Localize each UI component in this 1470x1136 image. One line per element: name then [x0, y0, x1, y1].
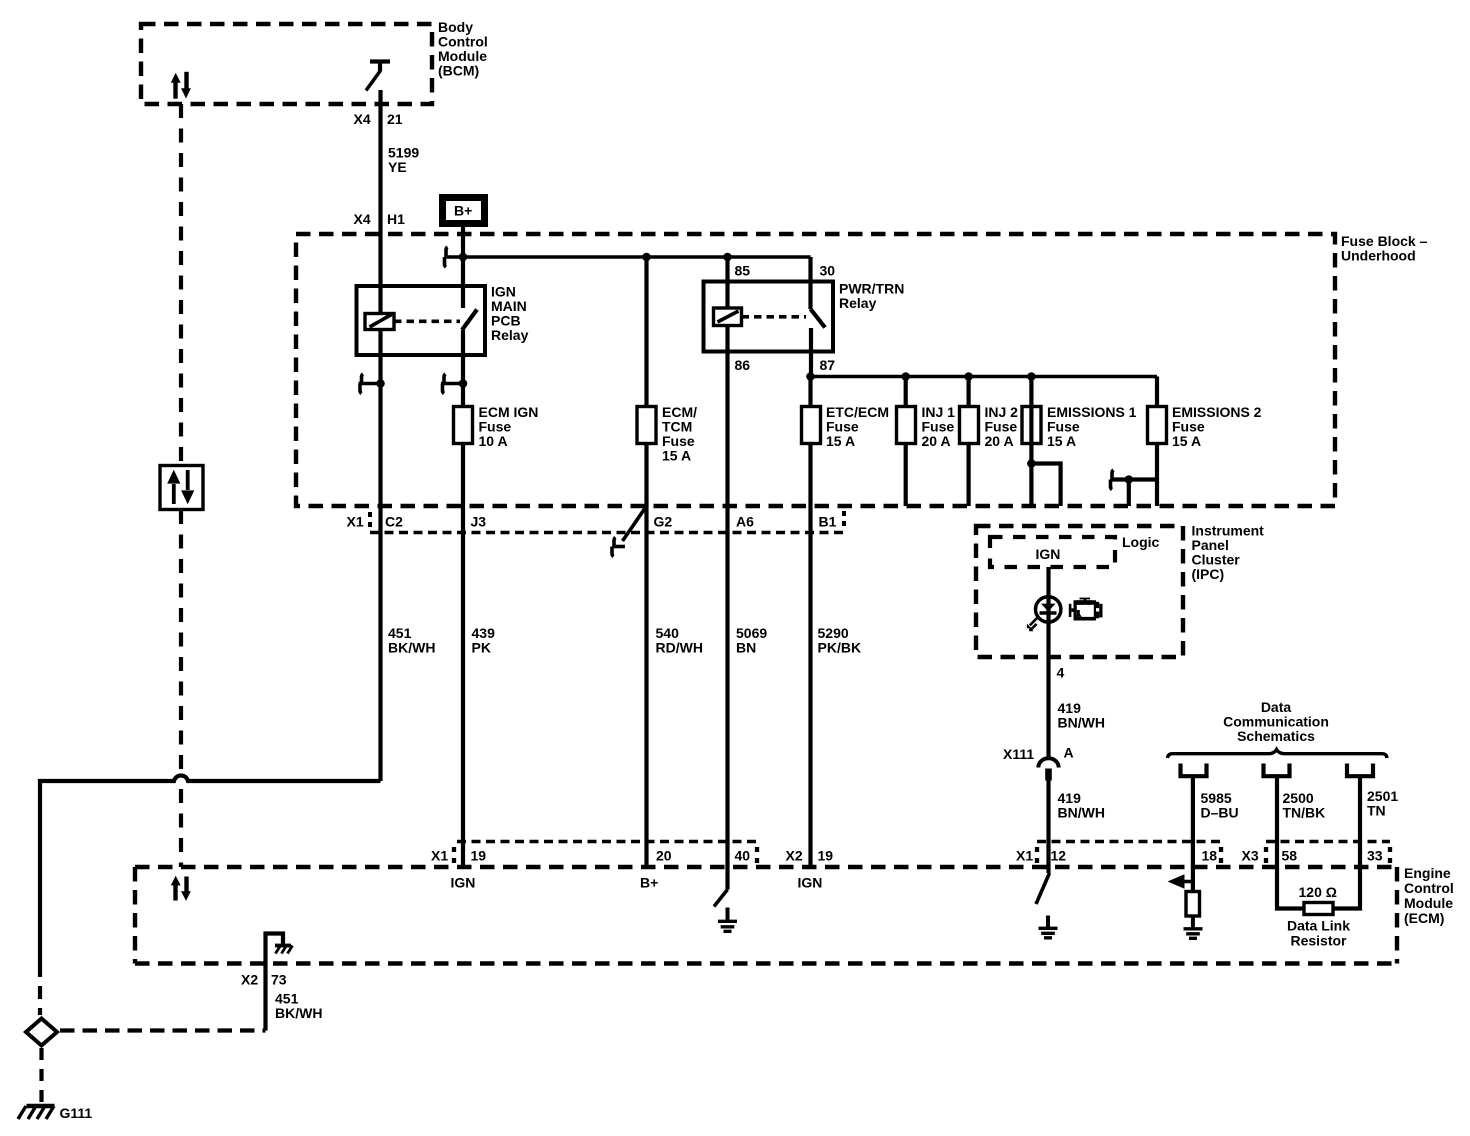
indicator LED lamp: [1027, 597, 1061, 632]
module box BCM: [141, 24, 432, 104]
svg-text:H1: H1: [387, 211, 405, 227]
wire coil out to C2: [378, 330, 382, 507]
wire IGN to lamp: [1046, 567, 1050, 657]
wire dashed to splice: [38, 964, 42, 1015]
svg-text:X1: X1: [431, 848, 448, 864]
svg-text:Schematics: Schematics: [1237, 728, 1315, 744]
terminal clip C2: [359, 374, 385, 394]
node junction INJ1 tap: [901, 372, 910, 381]
wire 451 BK/WH horizontal with hop: [40, 775, 381, 964]
svg-text:(ECM): (ECM): [1404, 910, 1444, 926]
svg-text:BK/WH: BK/WH: [275, 1005, 322, 1021]
svg-text:Module: Module: [1404, 895, 1453, 911]
svg-text:D–BU: D–BU: [1201, 805, 1239, 821]
svg-text:A6: A6: [736, 514, 754, 530]
svg-text:Relay: Relay: [839, 295, 877, 311]
node X4 H1: [354, 211, 406, 227]
svg-text:A: A: [1064, 745, 1074, 761]
wire 451 BK/WH run: [378, 506, 382, 781]
switch clip at G2: [612, 506, 647, 557]
brace: [1168, 750, 1388, 759]
wire 87 to B1: [808, 377, 812, 507]
terminal clip at B+ node: [445, 247, 464, 267]
fuse ECM/TCM 15A: [637, 404, 697, 464]
wire 419 BN/WH lower: [1046, 780, 1050, 873]
svg-text:(IPC): (IPC): [1192, 566, 1225, 582]
ground at pin 18: [1184, 916, 1203, 938]
label IGN MAIN PCB Relay: [491, 284, 529, 344]
wire bus to PWR/TRN relay: [463, 255, 811, 259]
node junction INJ2 tap: [964, 372, 973, 381]
label BCM: [438, 19, 488, 79]
label 5985 D-BU: [1201, 790, 1239, 821]
svg-text:PK: PK: [472, 640, 491, 656]
node X4 21: [354, 111, 403, 127]
svg-text:X2: X2: [241, 972, 258, 988]
svg-text:PK/BK: PK/BK: [818, 640, 862, 656]
connector line ECM X1 right: [1037, 842, 1221, 864]
svg-text:TN/BK: TN/BK: [1283, 805, 1326, 821]
wire pin 33: [1333, 842, 1360, 909]
svg-text:Control: Control: [1404, 880, 1454, 896]
svg-text:Underhood: Underhood: [1341, 248, 1416, 264]
svg-text:10 A: 10 A: [479, 433, 508, 449]
connector line fuse block X1: [370, 511, 845, 533]
label 2500 TN/BK: [1283, 790, 1326, 821]
svg-text:RD/WH: RD/WH: [656, 640, 703, 656]
connector stub 5985: [1181, 764, 1207, 842]
svg-text:20 A: 20 A: [922, 433, 951, 449]
pin labels fuse block connector: [347, 514, 837, 530]
logic box IGN: [990, 537, 1115, 567]
connector stub 2501: [1347, 764, 1373, 842]
connector line ECM X1 left: [454, 842, 757, 864]
switch inside BCM: [366, 62, 390, 91]
wire ECM IGN fuse to pin 19: [461, 444, 465, 868]
fuse INJ 2 20A: [960, 404, 1019, 449]
label 2501 TN: [1367, 788, 1398, 819]
node junction 85 tap: [723, 253, 732, 262]
node X2 73: [241, 972, 287, 988]
label 540 RD/WH: [656, 625, 703, 656]
pin 86 wire to A6: [725, 326, 729, 507]
svg-text:Relay: Relay: [491, 327, 529, 343]
label 451 BK/WH: [388, 625, 435, 656]
svg-text:YE: YE: [388, 159, 407, 175]
svg-text:BK/WH: BK/WH: [388, 640, 435, 656]
node junction B+ bus: [459, 253, 468, 262]
svg-text:J3: J3: [471, 514, 487, 530]
wire B+ feed: [461, 227, 465, 308]
module box Fuse Block Underhood: [296, 234, 1335, 506]
connector X111 A: [1003, 745, 1074, 781]
fuse ETC/ECM 15A: [802, 404, 890, 449]
icon check engine: [1069, 598, 1103, 621]
svg-text:G111: G111: [60, 1105, 93, 1121]
svg-text:87: 87: [820, 357, 836, 373]
svg-text:X4: X4: [354, 211, 371, 227]
svg-text:G2: G2: [654, 514, 673, 530]
svg-text:X2: X2: [786, 848, 803, 864]
terminal clip J3: [441, 374, 467, 394]
svg-text:Resistor: Resistor: [1290, 933, 1347, 949]
wire EMISSIONS1 output: [1029, 377, 1033, 507]
svg-text:BN: BN: [736, 640, 756, 656]
node junction EMISSIONS2 branch: [1125, 475, 1134, 484]
fuse INJ 1 20A: [897, 404, 956, 449]
svg-text:IGN: IGN: [451, 875, 476, 891]
wire switch out to J3: [461, 330, 465, 407]
ground G111: [18, 1105, 92, 1121]
svg-text:73: 73: [271, 972, 287, 988]
relay IGN MAIN PCB: [357, 286, 486, 355]
label ECM: [1404, 865, 1454, 926]
resistor 120 ohm: [1299, 884, 1337, 915]
module box ECM: [135, 867, 1397, 964]
terminal clip EMISSIONS2: [1111, 470, 1114, 490]
svg-text:120 Ω: 120 Ω: [1299, 884, 1337, 900]
svg-text:BN/WH: BN/WH: [1058, 715, 1105, 731]
label 5290 PK/BK: [818, 625, 862, 656]
svg-text:BN/WH: BN/WH: [1058, 805, 1105, 821]
svg-text:Data Link: Data Link: [1287, 918, 1350, 934]
svg-text:Engine: Engine: [1404, 865, 1451, 881]
label 5199 YE: [388, 145, 419, 176]
node junction EMISSIONS1 branch: [1027, 459, 1036, 468]
switch at pin 12: [1036, 873, 1050, 904]
wire INJ2: [966, 377, 970, 507]
node junction ECM/TCM tap: [642, 253, 651, 262]
arrows in BCM: [171, 72, 191, 99]
svg-text:20: 20: [656, 848, 672, 864]
arrows in ECM: [171, 876, 191, 901]
wire dashed BCM to ECM: [179, 104, 183, 867]
resistor termination: [1186, 892, 1200, 917]
fuse EMISSIONS 2 15A: [1148, 404, 1262, 449]
wire EMISSIONS2 branch: [1112, 477, 1157, 481]
svg-text:20 A: 20 A: [985, 433, 1014, 449]
fuse ECM IGN 10A: [454, 404, 539, 449]
label PWR/TRN Relay: [839, 281, 904, 312]
label Fuse Block Underhood: [1341, 233, 1428, 264]
wire dashed splice to X2 73: [60, 1028, 266, 1032]
wire bus to ECM/TCM fuse: [644, 257, 648, 407]
svg-text:IGN: IGN: [798, 875, 823, 891]
svg-text:15 A: 15 A: [826, 433, 855, 449]
node junction EMISSIONS1 tap: [1027, 372, 1036, 381]
wire pin 18 to resistor: [1191, 842, 1195, 892]
svg-text:B1: B1: [819, 514, 837, 530]
svg-text:TN: TN: [1367, 803, 1386, 819]
svg-text:C2: C2: [385, 514, 403, 530]
svg-text:40: 40: [735, 848, 751, 864]
pin labels ECM connector: [431, 848, 1383, 864]
relay PWR/TRN: [704, 282, 834, 352]
svg-text:X3: X3: [1242, 848, 1259, 864]
svg-text:15 A: 15 A: [1172, 433, 1201, 449]
label Data Communication Schematics: [1223, 699, 1329, 744]
two-way box on dashed wire: [160, 466, 203, 510]
node junction 87: [806, 372, 815, 381]
wire bus 87 feed: [811, 375, 1158, 379]
ground at pin 12: [1039, 916, 1058, 938]
svg-text:12: 12: [1051, 848, 1067, 864]
pin 30: [808, 257, 812, 309]
wire INJ1: [904, 377, 908, 507]
svg-text:X1: X1: [1016, 848, 1033, 864]
wire 5199 YE from BCM: [378, 90, 382, 314]
module box IPC: [976, 526, 1183, 657]
svg-text:15 A: 15 A: [1047, 433, 1076, 449]
svg-text:B+: B+: [454, 203, 472, 219]
label 451 BK/WH lower: [275, 991, 322, 1022]
connector stub 2500: [1264, 764, 1290, 842]
wire ECM/TCM fuse to pin 20: [644, 444, 648, 868]
switch at pin 40: [714, 842, 728, 907]
pin 87 wire: [809, 328, 813, 377]
ground at pin 40: [718, 908, 737, 932]
pin 85: [725, 257, 729, 308]
svg-text:33: 33: [1367, 848, 1383, 864]
wire 5069 BN run: [725, 506, 729, 842]
svg-text:30: 30: [820, 263, 836, 279]
wire EMISSIONS2 drop: [1127, 480, 1131, 507]
svg-text:19: 19: [818, 848, 834, 864]
wire pin 58: [1277, 842, 1304, 909]
svg-text:X1: X1: [347, 514, 364, 530]
svg-text:18: 18: [1202, 848, 1218, 864]
wire EMISSIONS2 feed: [1155, 377, 1159, 507]
wire 419 BN/WH upper: [1046, 657, 1050, 759]
svg-text:(BCM): (BCM): [438, 63, 479, 79]
connector line ECM X3: [1266, 842, 1390, 864]
svg-text:Logic: Logic: [1122, 534, 1160, 550]
ground internal X2 73: [266, 934, 293, 1031]
svg-text:X111: X111: [1003, 746, 1034, 762]
label 5069 BN: [736, 625, 767, 656]
svg-text:15 A: 15 A: [662, 448, 691, 464]
label IPC: [1192, 523, 1265, 583]
wire 5290 PK/BK run: [808, 506, 812, 867]
svg-text:4: 4: [1057, 665, 1065, 681]
svg-text:21: 21: [387, 111, 403, 127]
label 439 PK: [472, 625, 496, 656]
svg-text:B+: B+: [640, 875, 658, 891]
power symbol B+: [443, 198, 485, 224]
splice diamond: [26, 1019, 57, 1046]
svg-text:58: 58: [1282, 848, 1298, 864]
svg-text:85: 85: [735, 263, 751, 279]
wire dashed splice to G111: [39, 1048, 43, 1102]
svg-text:86: 86: [735, 357, 751, 373]
fuse EMISSIONS 1 15A: [1022, 404, 1137, 449]
svg-text:19: 19: [471, 848, 487, 864]
arrow at pin 18: [1168, 874, 1193, 889]
wire EMISSIONS1 branch: [1031, 464, 1060, 507]
svg-text:IGN: IGN: [1036, 546, 1061, 562]
svg-text:X4: X4: [354, 111, 371, 127]
label Data Link Resistor: [1287, 918, 1350, 949]
